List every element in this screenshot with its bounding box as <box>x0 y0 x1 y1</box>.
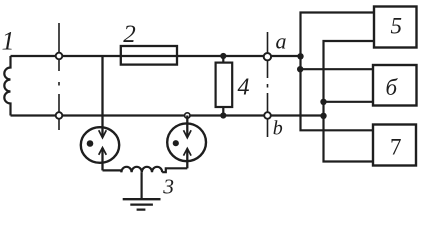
terminal circle left bottom <box>56 112 63 119</box>
resistor R2 <box>121 46 177 65</box>
wire V1 to coil <box>103 170 122 172</box>
junction dot bus2 bottom wire <box>320 113 326 119</box>
box 7 (instrument) <box>373 125 416 166</box>
valve V1 envelope <box>81 127 119 163</box>
wire bus1 to box 6 top <box>301 68 374 70</box>
wire dash-dot phase line right (a-b) <box>267 32 269 137</box>
valve V1 drop wire with arrow <box>101 56 103 137</box>
svg-text:4: 4 <box>238 75 250 101</box>
svg-text:1: 1 <box>2 27 15 56</box>
terminal circle valve V2 anode <box>185 113 190 118</box>
valve V2 drop wire with arrow <box>186 116 188 138</box>
svg-text:3: 3 <box>162 175 174 199</box>
svg-text:б: б <box>386 75 399 100</box>
svg-text:a: a <box>276 29 287 54</box>
inductor 1 (generator winding) <box>4 56 10 116</box>
terminal circle left top <box>56 53 63 60</box>
junction dot R4 top <box>220 53 226 59</box>
inductor 3 (interphase reactor) <box>121 167 162 172</box>
wire bus2 (b side) to boxes 5 and 7 <box>324 41 375 162</box>
junction dot bus1 top wire <box>297 53 303 59</box>
valve V2 up arrow <box>186 149 188 169</box>
svg-text:b: b <box>273 118 283 140</box>
wire top bus (node a line) <box>11 55 301 57</box>
box 6 (instrument) <box>373 65 417 106</box>
node a terminal circle <box>264 53 271 60</box>
junction dot bus2 box6 wire <box>320 99 326 105</box>
valve V1 up arrow <box>101 148 103 170</box>
wire center tap <box>141 172 143 199</box>
valve V1 cathode dot <box>87 140 94 147</box>
wire bottom bus (node b line) <box>11 114 324 116</box>
resistor R4 <box>222 56 224 116</box>
ground <box>123 199 161 209</box>
junction dot R4 bottom <box>220 112 226 118</box>
svg-text:7: 7 <box>390 135 402 160</box>
wire V2 to coil <box>162 168 187 172</box>
wire bus1 (a side) to boxes 5 and 7 <box>301 13 375 131</box>
svg-text:5: 5 <box>391 13 403 38</box>
node b terminal circle <box>264 112 271 119</box>
wire dash-dot phase line left <box>58 23 60 130</box>
valve V2 envelope <box>167 123 206 161</box>
svg-text:2: 2 <box>123 21 136 48</box>
valve V2 cathode dot <box>173 140 179 146</box>
junction dot bus1 box6 wire <box>297 66 303 72</box>
wire bus2 to box 6 bottom <box>324 101 374 103</box>
box 5 (instrument) <box>374 7 417 48</box>
